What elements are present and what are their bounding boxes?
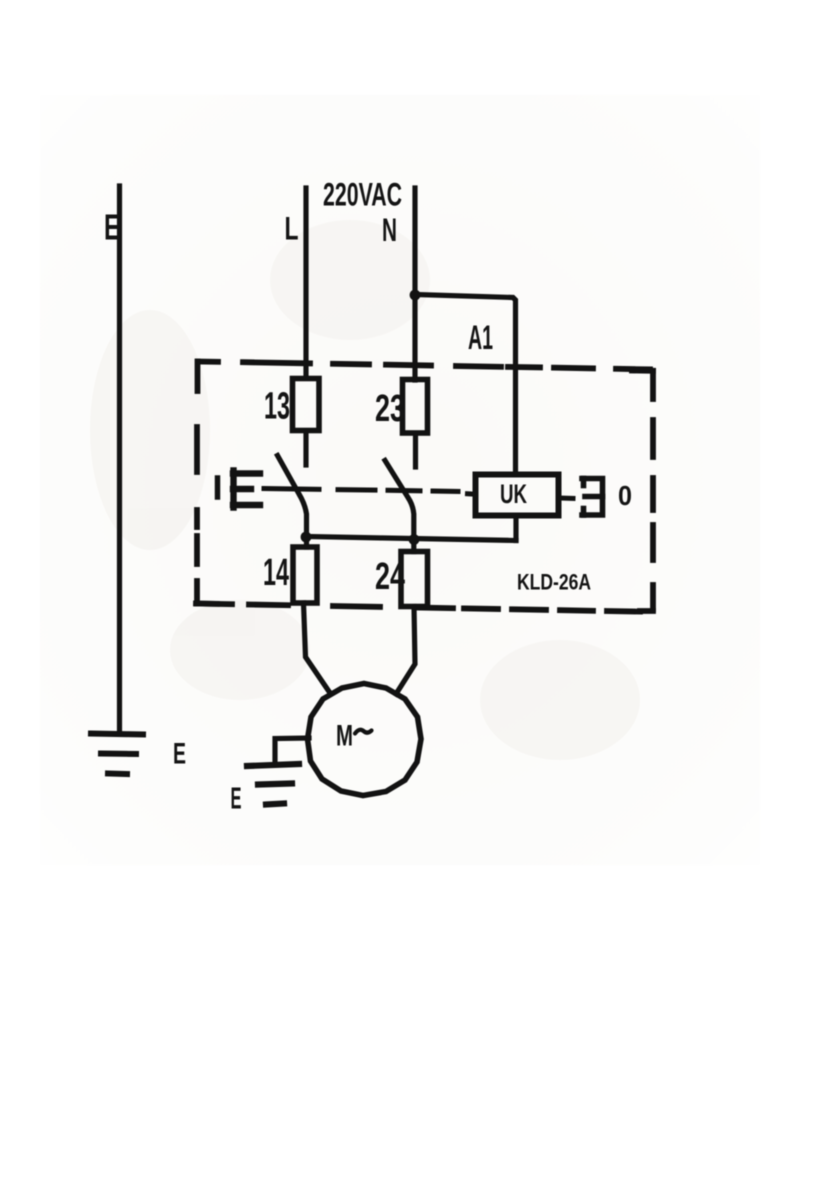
wire: earth bus vertical line left: [117, 186, 122, 733]
terminal box 14: [293, 547, 317, 603]
svg-text:13: 13: [264, 386, 290, 428]
svg-text:A1: A1: [468, 319, 493, 357]
node: junction below contact 13-14: [301, 532, 312, 543]
svg-text:0: 0: [618, 480, 632, 511]
wire: 24 to motor: [396, 607, 415, 695]
node: junction on N line: [410, 290, 421, 301]
svg-text:E: E: [231, 781, 242, 816]
wire: N neutral vertical: [412, 188, 417, 380]
wire: coil UK bottom lead: [513, 516, 518, 541]
svg-text:KLD-26A: KLD-26A: [517, 570, 591, 595]
svg-text:23: 23: [375, 388, 405, 430]
ground (earth symbol, motor): [247, 764, 299, 805]
ground (earth symbol, left): [91, 734, 143, 775]
dashed enclosure: top border: [198, 362, 650, 370]
dashed enclosure: left border: [194, 362, 200, 604]
contact NO 13-14 (switch blade): [278, 431, 307, 547]
svg-text:24: 24: [375, 556, 405, 598]
motor tilde mark: [355, 730, 372, 734]
svg-text:E: E: [173, 738, 186, 771]
wire: coil UK left stub: [468, 491, 476, 496]
svg-text:14: 14: [263, 552, 289, 594]
wire: link bus from contacts to coil UK: [306, 537, 516, 541]
wire: coil UK right stub: [559, 496, 573, 501]
svg-text:L: L: [285, 211, 299, 247]
actuator E symbol (drawn): [233, 471, 260, 508]
terminal box 23: [403, 380, 428, 434]
svg-text:M: M: [336, 720, 353, 753]
contact NO 23-24 (switch blade): [385, 435, 416, 552]
wire: N to coil branch (to A1): [415, 295, 516, 475]
dashed enclosure: right border: [632, 371, 653, 612]
svg-text:UK: UK: [500, 479, 527, 509]
terminal box 24: [401, 552, 428, 607]
wire: 14 to motor: [304, 603, 331, 693]
motor M circle: [308, 684, 422, 796]
wire: motor earth lead: [275, 738, 309, 764]
relay coil UK box: [476, 475, 559, 516]
svg-text:E: E: [104, 207, 120, 248]
actuator link dashed line (mechanical linkage): [264, 489, 458, 492]
svg-text:N: N: [382, 212, 397, 248]
dashed enclosure: bottom border: [196, 604, 640, 612]
wire: L phase vertical: [303, 188, 308, 378]
bracket terminal symbol right of coil (E-bar): [582, 479, 603, 516]
terminal box 13: [293, 379, 320, 431]
svg-text:220VAC: 220VAC: [323, 177, 402, 213]
node: junction below contact 23-24: [409, 534, 420, 545]
actuator tick mark: [215, 478, 221, 497]
